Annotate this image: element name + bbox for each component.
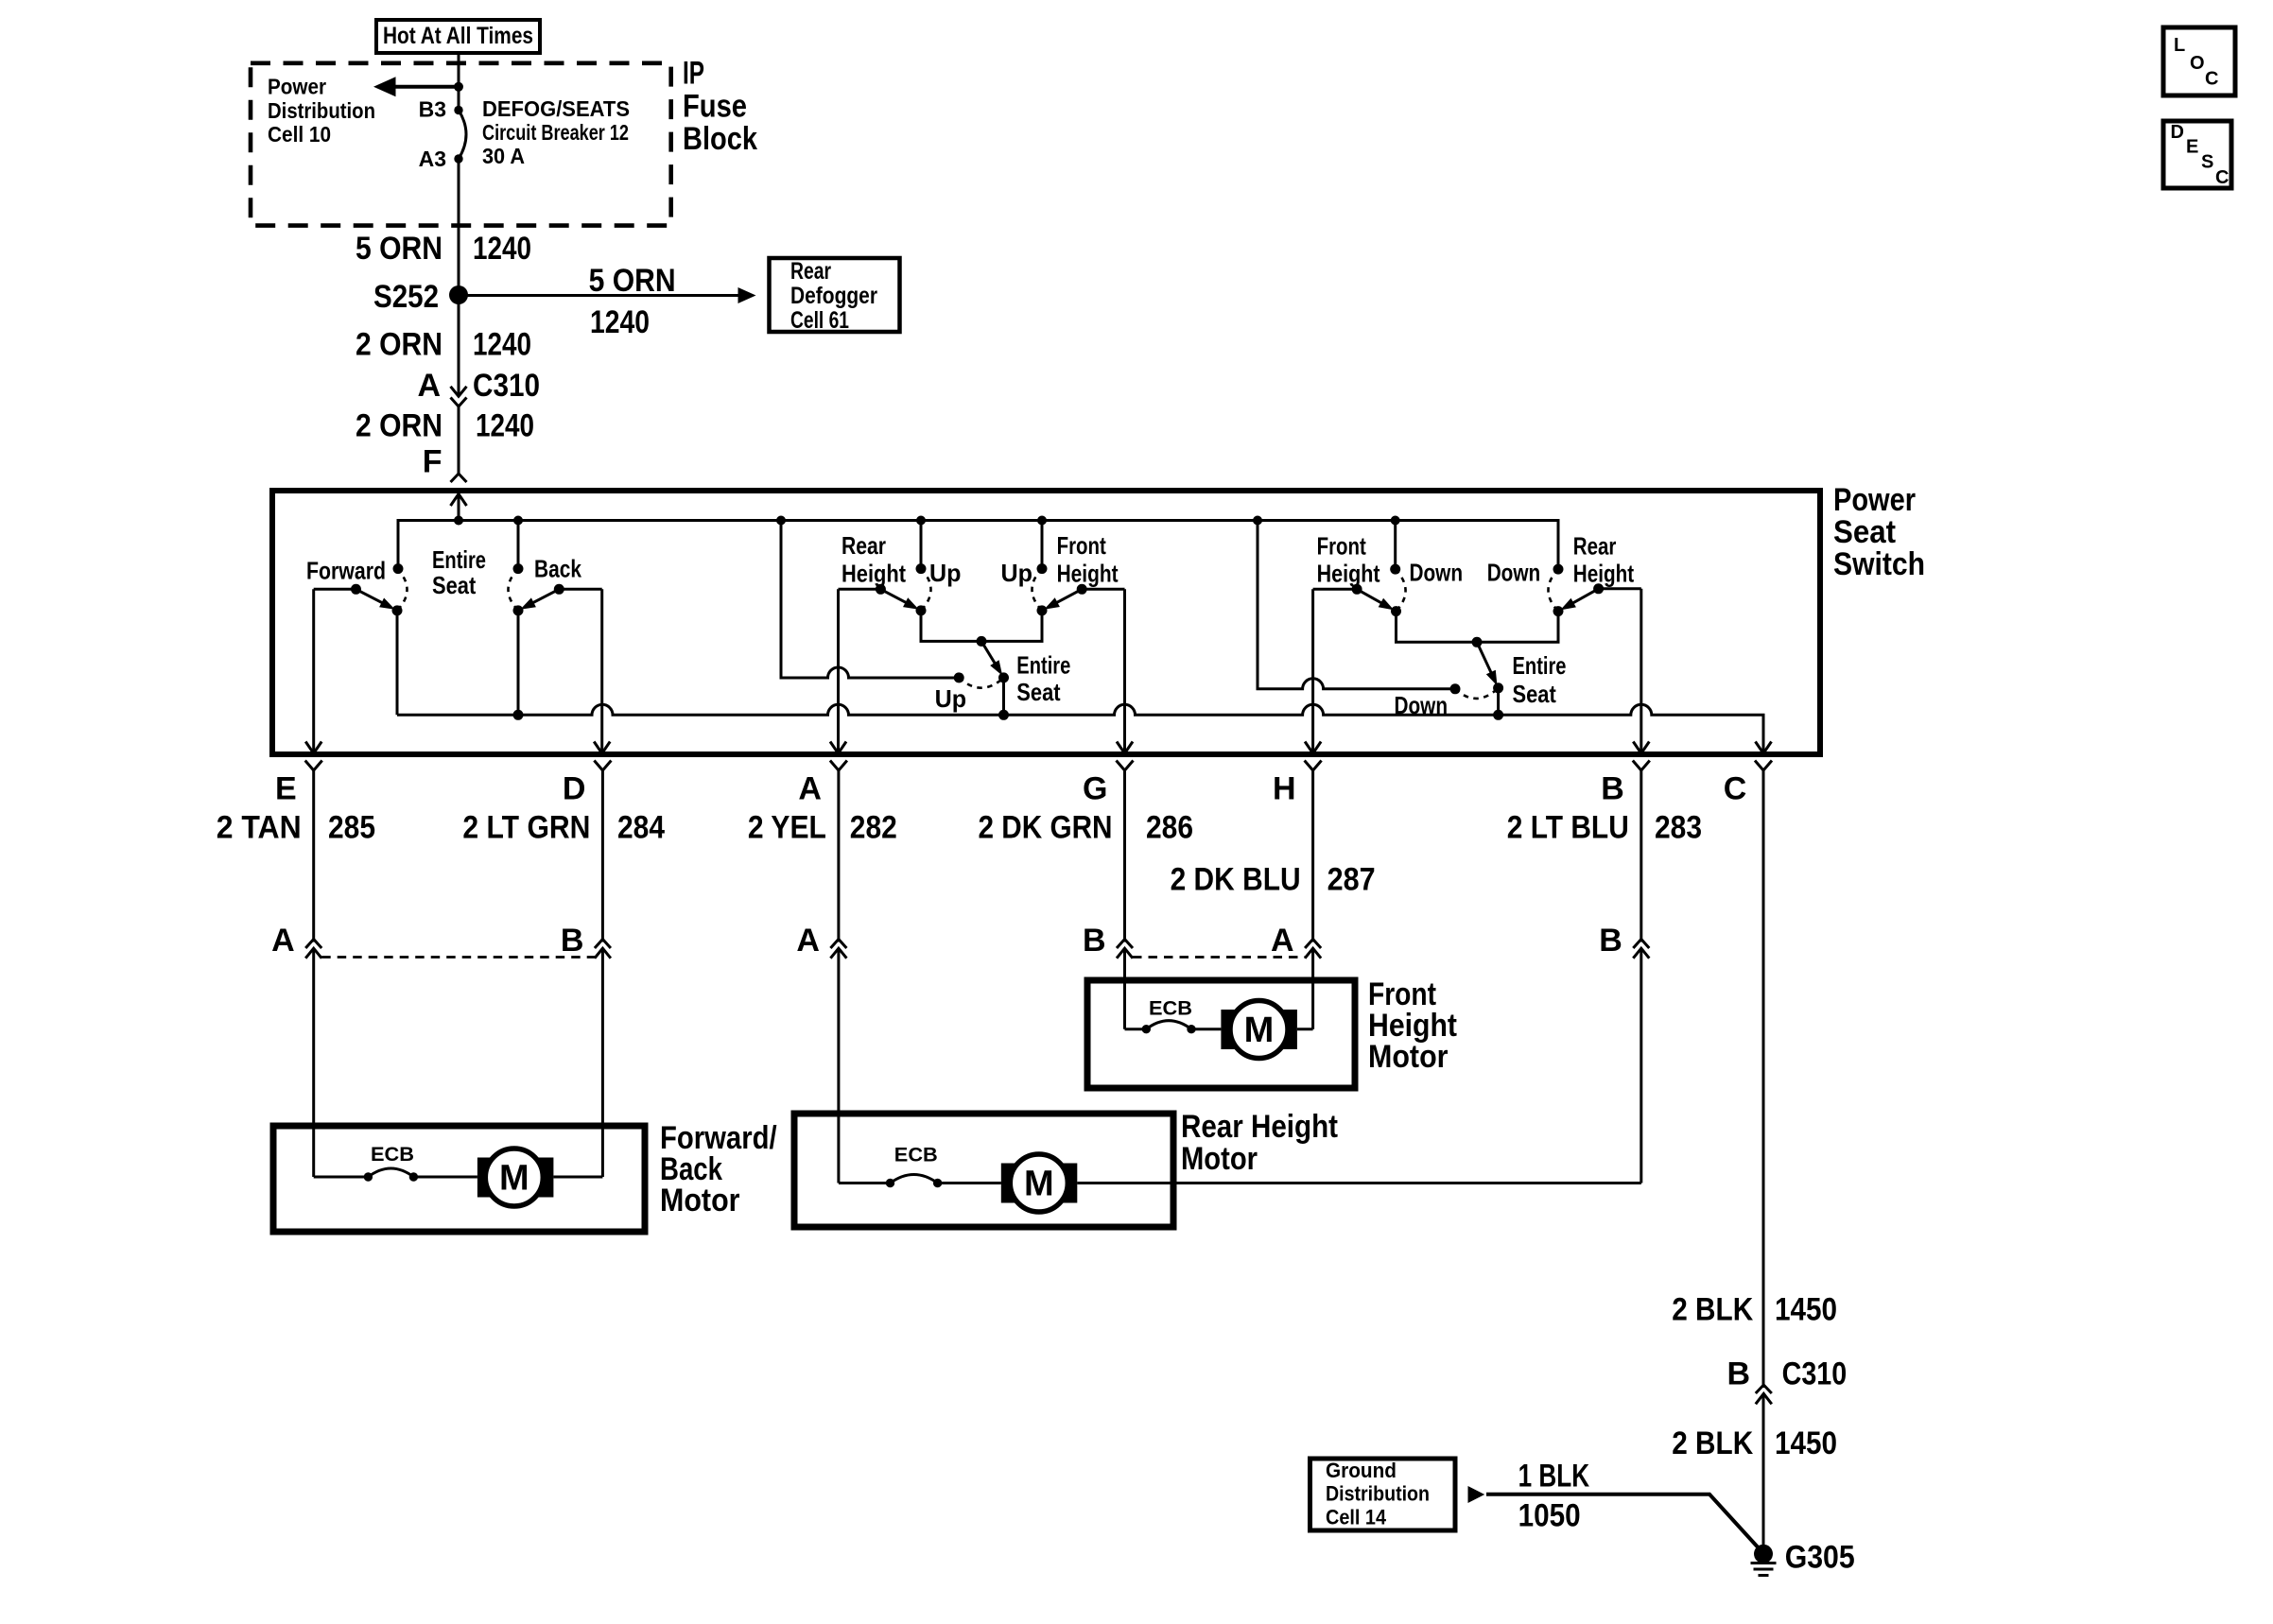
svg-text:283: 283 xyxy=(1655,810,1702,846)
svg-text:B: B xyxy=(1599,923,1622,959)
svg-text:O: O xyxy=(2190,53,2205,74)
svg-text:Distribution: Distribution xyxy=(1326,1482,1430,1506)
svg-text:A: A xyxy=(798,771,822,807)
svg-text:D: D xyxy=(2171,122,2184,143)
svg-text:C310: C310 xyxy=(473,368,540,404)
svg-text:E: E xyxy=(275,771,297,807)
svg-text:S: S xyxy=(2201,152,2213,173)
svg-text:Height: Height xyxy=(1317,560,1380,588)
svg-text:E: E xyxy=(2186,137,2198,158)
svg-text:Ground: Ground xyxy=(1326,1459,1397,1482)
svg-text:285: 285 xyxy=(328,810,375,846)
svg-text:1 BLK: 1 BLK xyxy=(1518,1459,1590,1494)
svg-text:A: A xyxy=(796,923,820,959)
svg-text:Switch: Switch xyxy=(1833,546,1925,582)
svg-text:M: M xyxy=(1244,1011,1275,1050)
svg-text:30 A: 30 A xyxy=(482,144,525,168)
svg-text:Height: Height xyxy=(1573,560,1635,588)
svg-text:Block: Block xyxy=(683,121,757,157)
svg-text:282: 282 xyxy=(850,810,897,846)
svg-text:B: B xyxy=(561,923,584,959)
svg-text:2 DK BLU: 2 DK BLU xyxy=(1171,862,1301,898)
svg-text:Rear: Rear xyxy=(1573,532,1617,561)
svg-text:286: 286 xyxy=(1146,810,1193,846)
svg-text:F: F xyxy=(423,444,442,480)
svg-text:1240: 1240 xyxy=(590,304,650,340)
svg-text:L: L xyxy=(2174,35,2185,56)
svg-text:5 ORN: 5 ORN xyxy=(589,263,676,299)
svg-text:Up: Up xyxy=(929,559,962,587)
svg-text:ECB: ECB xyxy=(894,1145,938,1166)
svg-text:Seat: Seat xyxy=(1513,680,1557,708)
svg-text:Cell 10: Cell 10 xyxy=(268,122,331,147)
svg-text:ECB: ECB xyxy=(1149,998,1192,1020)
svg-text:Power: Power xyxy=(268,75,326,99)
svg-text:Down: Down xyxy=(1410,559,1464,587)
svg-text:Cell 14: Cell 14 xyxy=(1326,1505,1387,1529)
svg-text:B: B xyxy=(1726,1356,1750,1392)
svg-text:A: A xyxy=(271,923,295,959)
svg-text:2 BLK: 2 BLK xyxy=(1672,1292,1753,1328)
svg-text:Cell 61: Cell 61 xyxy=(790,307,849,334)
svg-text:G305: G305 xyxy=(1785,1540,1855,1576)
svg-text:Up: Up xyxy=(1001,559,1033,587)
svg-text:Seat: Seat xyxy=(1833,514,1896,550)
svg-text:DEFOG/SEATS: DEFOG/SEATS xyxy=(482,96,630,121)
svg-text:Forward: Forward xyxy=(306,557,386,585)
svg-text:1240: 1240 xyxy=(476,408,534,444)
svg-text:ECB: ECB xyxy=(371,1144,414,1166)
svg-text:Front: Front xyxy=(1057,531,1106,560)
svg-text:Seat: Seat xyxy=(1016,678,1061,706)
svg-text:B3: B3 xyxy=(419,97,446,122)
svg-text:B: B xyxy=(1083,923,1106,959)
svg-text:Entire: Entire xyxy=(1513,651,1567,680)
svg-text:Distribution: Distribution xyxy=(268,98,375,123)
svg-text:1240: 1240 xyxy=(473,231,531,267)
svg-text:C: C xyxy=(2205,69,2218,90)
svg-text:Down: Down xyxy=(1395,691,1449,719)
svg-text:2 DK GRN: 2 DK GRN xyxy=(979,810,1113,846)
svg-text:Entire: Entire xyxy=(1016,651,1070,680)
svg-text:Motor: Motor xyxy=(1181,1141,1258,1177)
svg-text:A: A xyxy=(417,368,441,404)
svg-text:2 TAN: 2 TAN xyxy=(217,810,302,846)
svg-text:Circuit Breaker 12: Circuit Breaker 12 xyxy=(482,120,629,145)
svg-text:Motor: Motor xyxy=(1368,1039,1449,1075)
svg-text:Back: Back xyxy=(534,555,581,583)
svg-text:2 ORN: 2 ORN xyxy=(356,408,442,444)
svg-text:Rear Height: Rear Height xyxy=(1181,1109,1338,1145)
svg-text:IP: IP xyxy=(683,55,704,91)
svg-text:Rear: Rear xyxy=(842,531,886,560)
svg-text:B: B xyxy=(1601,771,1624,807)
svg-text:G: G xyxy=(1083,771,1107,807)
svg-text:D: D xyxy=(563,771,586,807)
svg-text:2 LT GRN: 2 LT GRN xyxy=(462,810,590,846)
svg-text:2 ORN: 2 ORN xyxy=(356,327,442,363)
svg-text:S252: S252 xyxy=(373,279,439,315)
svg-text:1050: 1050 xyxy=(1518,1498,1581,1534)
svg-text:Front: Front xyxy=(1317,532,1366,561)
svg-text:5 ORN: 5 ORN xyxy=(356,231,442,267)
svg-text:2 BLK: 2 BLK xyxy=(1672,1425,1753,1461)
svg-text:1450: 1450 xyxy=(1775,1425,1837,1461)
svg-text:M: M xyxy=(1024,1165,1054,1204)
svg-text:Seat: Seat xyxy=(432,571,477,599)
svg-text:Height: Height xyxy=(1057,560,1119,588)
svg-text:C: C xyxy=(1724,771,1747,807)
svg-text:C310: C310 xyxy=(1782,1356,1848,1392)
svg-text:1240: 1240 xyxy=(473,327,531,363)
svg-text:Power: Power xyxy=(1833,482,1916,518)
svg-text:A3: A3 xyxy=(419,147,446,171)
svg-text:2 LT BLU: 2 LT BLU xyxy=(1507,810,1629,846)
svg-text:Motor: Motor xyxy=(660,1183,740,1218)
svg-text:Hot At All Times: Hot At All Times xyxy=(383,23,533,49)
svg-text:284: 284 xyxy=(617,810,665,846)
svg-text:Fuse: Fuse xyxy=(683,89,747,125)
svg-text:2 YEL: 2 YEL xyxy=(748,810,826,846)
svg-text:1450: 1450 xyxy=(1775,1292,1837,1328)
svg-text:C: C xyxy=(2215,167,2229,188)
svg-text:Down: Down xyxy=(1487,559,1541,587)
svg-text:H: H xyxy=(1273,771,1296,807)
svg-text:Entire: Entire xyxy=(432,545,486,574)
svg-text:Rear: Rear xyxy=(790,258,831,285)
svg-text:287: 287 xyxy=(1327,862,1376,898)
svg-text:M: M xyxy=(499,1159,529,1199)
svg-text:A: A xyxy=(1271,923,1294,959)
svg-text:Up: Up xyxy=(935,684,967,713)
svg-text:Height: Height xyxy=(842,560,906,588)
svg-text:Defogger: Defogger xyxy=(790,283,877,309)
